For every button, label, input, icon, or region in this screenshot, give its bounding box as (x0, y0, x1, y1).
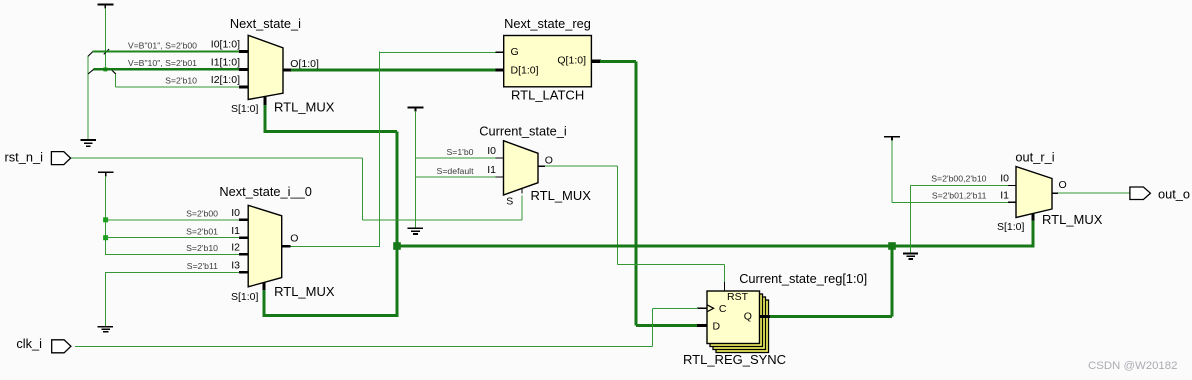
wire mux0 I3 row (105, 271, 240, 273)
svg-text:O: O (1059, 179, 1067, 191)
wire vcc1 vertical (104, 8, 106, 69)
wire curmux I0 row (416, 157, 497, 159)
wire mux1 I1 row (net const 2'b10) (94, 68, 240, 71)
mux U1 Next_state_i body (248, 35, 283, 99)
svg-text:S=2'b01: S=2'b01 (186, 227, 218, 237)
port rst_n_i (51, 152, 70, 165)
mux U3 Next_state_i__0 body (248, 205, 282, 286)
power VCC4 (out_r_i) (884, 137, 900, 141)
svg-text:CSDN @W20182: CSDN @W20182 (1088, 360, 1177, 372)
wire mux0 I0 row (106, 219, 240, 221)
svg-text:S[1:0]: S[1:0] (231, 291, 259, 303)
wire bus U6.S down to Current_state row (1032, 221, 1035, 248)
svg-text:O: O (290, 233, 298, 245)
svg-text:I0: I0 (231, 207, 240, 219)
svg-text:S=2'b01,2'b11: S=2'b01,2'b11 (932, 190, 987, 200)
svg-text:S=default: S=default (437, 166, 475, 176)
svg-text:I3: I3 (231, 260, 240, 272)
wire vcc2 vertical (105, 176, 107, 254)
wire bus Current_state long row (397, 245, 1033, 248)
wire mux1 I2 row (net const 2'b10) (116, 86, 240, 88)
wire outmux I0 row (911, 185, 1009, 187)
wire vcc4 vertical (891, 140, 893, 202)
ground GND3 (903, 254, 918, 260)
wire vcc3/gnd2 vertical (415, 111, 417, 228)
wire mux1 I0 row (net const 2'b01) (93, 51, 240, 53)
wire bus U1.S down (Current_state) (264, 105, 267, 131)
bus tap diagonal (row I0 left end) (88, 52, 93, 57)
node junction (892,246) (888, 242, 896, 250)
svg-text:Next_state_i__0: Next_state_i__0 (219, 184, 311, 199)
ground GND1 (left) (81, 56, 97, 146)
svg-text:S: S (506, 196, 513, 208)
svg-text:V=B"01", S=2'b00: V=B"01", S=2'b00 (128, 40, 197, 50)
svg-text:V=B"10", S=2'b01: V=B"10", S=2'b01 (128, 58, 197, 68)
mux U1 Next_state_i pin stubs (239, 52, 291, 106)
wire curmux O net to reg RST (545, 166, 725, 282)
bus tap diagonal (row I2 tap from row I1) (112, 70, 116, 74)
svg-text:Q[1:0]: Q[1:0] (557, 55, 586, 67)
svg-text:I0: I0 (487, 145, 496, 157)
power VCC2 (Next_state_i__0) (98, 172, 114, 176)
svg-text:I2: I2 (231, 241, 240, 253)
wire latch G net (from Next_state_i__0 O) (290, 52, 496, 247)
wire rst net: port to S (71, 158, 522, 220)
svg-text:RST: RST (727, 291, 749, 303)
node vcc1/row I1 junction (103, 67, 107, 71)
node junction I0 row (103, 217, 108, 222)
svg-text:Next_state_reg: Next_state_reg (504, 16, 591, 31)
wire bus Current_state horizontal upper (264, 130, 398, 133)
svg-text:I2[1:0]: I2[1:0] (211, 74, 240, 86)
svg-text:O: O (545, 154, 553, 166)
mux U3 Next_state_i__0 pin stubs (239, 220, 291, 291)
svg-text:S=2'b11: S=2'b11 (187, 261, 218, 271)
svg-text:G: G (511, 46, 519, 58)
svg-text:RTL_LATCH: RTL_LATCH (511, 88, 584, 103)
wire mux0 I2 row (105, 253, 240, 255)
ground GND4 (below Next_state_i__0) (98, 327, 113, 332)
svg-text:Current_state_i: Current_state_i (479, 124, 567, 139)
node junction I1 row (103, 235, 108, 240)
wire bus mux1 output to latch D (291, 69, 496, 72)
port clk_i (52, 340, 71, 353)
wire mux0 I1 row (106, 237, 240, 239)
svg-text:I1: I1 (1000, 189, 1009, 201)
svg-text:D[1:0]: D[1:0] (511, 64, 539, 76)
svg-text:I1: I1 (231, 225, 240, 237)
wire I3 to ground vertical (105, 272, 107, 326)
mux U4 Current_state_i pin stubs (496, 158, 546, 194)
svg-text:I0[1:0]: I0[1:0] (211, 39, 240, 51)
wire bus reg Q riser (769, 246, 892, 317)
svg-text:RTL_REG_SYNC: RTL_REG_SYNC (683, 352, 786, 367)
svg-text:out_o: out_o (1158, 186, 1190, 201)
wire bus latch Q to reg D (600, 61, 698, 325)
latch U2 Next_state_reg pin stubs (496, 52, 601, 70)
wire clk net (75, 308, 698, 346)
svg-text:I0: I0 (1000, 173, 1009, 185)
wire I2 tap vertical (115, 74, 117, 87)
svg-text:C: C (719, 303, 727, 315)
svg-text:Current_state_reg[1:0]: Current_state_reg[1:0] (739, 271, 867, 286)
power VCC1 (top-left) (98, 5, 114, 9)
svg-text:S[1:0]: S[1:0] (997, 221, 1025, 233)
svg-text:I1: I1 (487, 164, 496, 176)
svg-text:RTL_MUX: RTL_MUX (274, 284, 335, 299)
svg-text:D: D (713, 321, 721, 333)
wire bus U3.S down to Current_state row (263, 290, 266, 317)
svg-text:RTL_MUX: RTL_MUX (274, 99, 335, 114)
svg-text:S[1:0]: S[1:0] (231, 103, 259, 115)
bus tap diagonal (vcc crossing row I0) (104, 49, 109, 54)
svg-text:O[1:0]: O[1:0] (290, 58, 319, 70)
reg U5 Current_state_reg stack shadows (710, 294, 769, 353)
svg-text:clk_i: clk_i (16, 336, 42, 351)
mux U6 out_r_i pin stubs (1008, 186, 1058, 222)
svg-text:I1[1:0]: I1[1:0] (211, 57, 240, 69)
port out_o (1130, 187, 1151, 200)
wire curmux I1 row (416, 176, 497, 178)
svg-text:S=2'b10: S=2'b10 (186, 243, 218, 253)
mux U4 Current_state_i body (504, 141, 539, 195)
wire outmux I1 row (892, 201, 1009, 203)
node junction (397,246) (393, 242, 401, 250)
mux U6 out_r_i body (1016, 167, 1052, 218)
svg-text:S=2'b00: S=2'b00 (186, 209, 218, 219)
power VCC3 (Current_state_i) (408, 108, 424, 112)
bus tap diagonal (row I1 left end) (88, 69, 94, 74)
svg-text:RTL_MUX: RTL_MUX (1042, 212, 1103, 227)
svg-text:Next_state_i: Next_state_i (230, 16, 301, 31)
ground GND2 (408, 228, 424, 234)
latch U2 Next_state_reg body (504, 36, 592, 87)
svg-text:out_r_i: out_r_i (1015, 149, 1054, 164)
svg-text:S=1'b0: S=1'b0 (446, 147, 473, 157)
wire gnd3 vertical (910, 186, 912, 253)
wire bus Current_state vertical x397 (396, 131, 399, 315)
reg U5 pin stubs (697, 282, 770, 326)
svg-text:rst_n_i: rst_n_i (5, 150, 43, 165)
svg-text:Q: Q (744, 310, 752, 322)
reg U5 Current_state_reg body (707, 291, 760, 344)
svg-text:S=2'b10: S=2'b10 (165, 76, 197, 86)
svg-text:RTL_MUX: RTL_MUX (531, 188, 592, 203)
wire bus Current_state horizontal lower (265, 314, 399, 317)
clock chevron (707, 305, 714, 312)
svg-text:S=2'b00,2'b10: S=2'b00,2'b10 (931, 174, 986, 184)
wire out O net to port (1058, 192, 1130, 194)
